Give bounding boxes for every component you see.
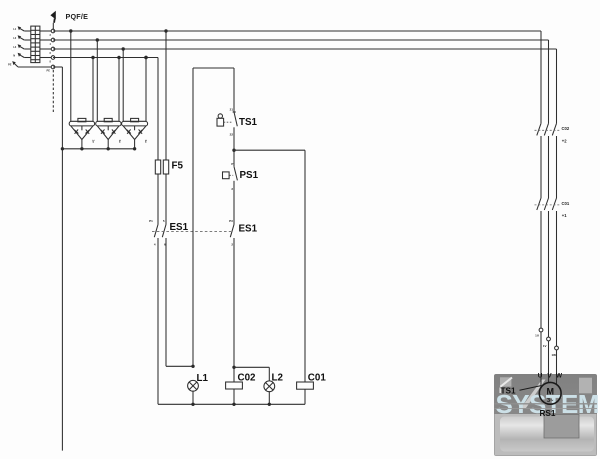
contactor C02 contact pole 1 xyxy=(537,123,541,198)
contactor C02 contact pole 2 xyxy=(544,123,548,198)
svg-text:C01: C01 xyxy=(308,372,327,383)
svg-text:L1: L1 xyxy=(197,373,209,384)
svg-text:RS1: RS1 xyxy=(540,409,556,418)
svg-text:1e: 1e xyxy=(118,140,122,144)
node A junction xyxy=(191,365,194,368)
wire heater3 right drop xyxy=(144,56,147,122)
lamp L1 xyxy=(188,380,199,391)
svg-text:21: 21 xyxy=(230,108,234,112)
SYSTEM watermark logo xyxy=(494,374,599,456)
contactor C02 contact pole 3 xyxy=(552,123,556,198)
wire heater1 right drop xyxy=(91,56,94,122)
svg-text:U: U xyxy=(538,373,543,380)
heater element R3 xyxy=(122,118,149,148)
node B junction xyxy=(232,149,235,152)
input filter/terminal block xyxy=(31,26,40,63)
svg-text:22: 22 xyxy=(230,133,234,137)
heater element R2 xyxy=(96,118,122,148)
wire ES1 b to node A xyxy=(166,238,193,366)
wire block to terminals xyxy=(40,31,51,58)
svg-text:P3: P3 xyxy=(229,219,233,223)
terminal 2 xyxy=(51,38,55,42)
switch ES1 pole b xyxy=(162,219,166,247)
contactor C01 contact pole 1 xyxy=(537,198,541,328)
motor plug terminal 1U xyxy=(535,328,543,387)
terminal 5 xyxy=(51,65,55,69)
node C junction xyxy=(232,366,235,369)
C02 contact linkage xyxy=(535,129,561,131)
svg-text:PQF/E: PQF/E xyxy=(66,12,89,21)
svg-text:L2: L2 xyxy=(272,372,284,383)
bottom neutral bus xyxy=(158,403,305,406)
wire heater2 right drop xyxy=(117,56,120,122)
contactor C01 contact pole 3 xyxy=(552,198,556,346)
wire PE rail xyxy=(53,67,62,451)
svg-text:N: N xyxy=(13,54,15,58)
motor plug terminal 1V xyxy=(543,337,551,382)
wire ES1 a to bottom bus xyxy=(157,238,159,404)
wire heater1 left drop xyxy=(69,29,72,121)
label TS1 motor sensor xyxy=(501,386,542,396)
svg-text:1U: 1U xyxy=(535,333,539,337)
svg-text:TS1: TS1 xyxy=(501,387,516,396)
wire lamp L2 to bus xyxy=(268,392,270,405)
bus line 3 (L3 phase) xyxy=(53,49,557,123)
wire TS1 to node B xyxy=(233,127,235,166)
switch ES1 pole a xyxy=(149,219,158,247)
svg-text:W: W xyxy=(556,373,563,380)
svg-text:C02: C02 xyxy=(238,372,257,383)
terminal 1 xyxy=(51,29,55,33)
wire coil C02 to bus xyxy=(233,389,235,404)
dash-dot stub below terminal block xyxy=(52,70,54,113)
bus line 4 (N) xyxy=(53,57,158,59)
svg-text:C01: C01 xyxy=(562,201,570,206)
switch ES1 pole c xyxy=(229,219,234,247)
svg-text:+2: +2 xyxy=(562,139,567,144)
wire node B to C01 branch xyxy=(234,150,305,382)
svg-text:M: M xyxy=(546,386,554,396)
svg-text:+1: +1 xyxy=(562,213,567,218)
svg-text:TS1: TS1 xyxy=(239,117,258,128)
motor M xyxy=(539,382,561,404)
wire lamp L1 to bus xyxy=(192,391,194,404)
terminal 3 xyxy=(51,47,55,51)
incoming feeder N xyxy=(13,53,31,58)
bus line 2 (L2 phase) xyxy=(53,40,549,123)
ES1 linkage dashed xyxy=(152,230,231,232)
svg-text:1e: 1e xyxy=(92,140,96,144)
C01 contact linkage xyxy=(535,204,561,206)
svg-text:P: P xyxy=(231,162,233,166)
fuse F5 pole a xyxy=(155,160,160,174)
svg-text:1e: 1e xyxy=(144,140,148,144)
fuse F5 pole b xyxy=(163,160,168,174)
wire N to fuse F5 left xyxy=(144,56,158,160)
bus line 1 (L1 phase) xyxy=(53,31,541,123)
wire TS1 column top xyxy=(233,68,235,112)
svg-text:1W: 1W xyxy=(552,353,557,357)
contactor coil C02 xyxy=(226,382,243,389)
svg-text:PE: PE xyxy=(8,62,12,66)
svg-text:C02: C02 xyxy=(562,126,570,131)
svg-text:PS1: PS1 xyxy=(240,170,259,181)
svg-text:PE: PE xyxy=(47,69,51,73)
contactor C01 contact pole 2 xyxy=(544,198,548,337)
label U V W xyxy=(538,373,563,380)
svg-text:3~: 3~ xyxy=(547,398,554,404)
svg-text:F5: F5 xyxy=(172,161,184,172)
svg-text:P1: P1 xyxy=(149,219,153,223)
svg-text:1V: 1V xyxy=(543,344,547,348)
heater bottom bus xyxy=(61,147,137,150)
wire node C to lamp L2 xyxy=(234,367,269,381)
incoming feeder L3 xyxy=(13,44,31,49)
wire heater2 left drop xyxy=(96,38,99,121)
pressure switch PS1 xyxy=(223,162,238,191)
wire heater3 left drop xyxy=(122,47,125,121)
wire fuses to switch ES1 xyxy=(158,174,166,225)
contactor coil C01 xyxy=(297,382,314,389)
terminal 4 xyxy=(51,56,55,60)
terminal pin numbers xyxy=(50,33,52,64)
wire L1 tap to fuse F5 right xyxy=(164,29,167,160)
svg-text:V: V xyxy=(547,373,552,380)
wire coil C01 to bus xyxy=(304,389,306,404)
motor plug terminal 1W xyxy=(552,346,559,385)
wire ES1 pole c to node C xyxy=(233,238,235,382)
supply arrow flag xyxy=(50,11,55,29)
lamp L2 xyxy=(264,381,275,392)
wire PS1 to ES1 pole c xyxy=(233,181,235,225)
incoming feeder L2 xyxy=(13,35,31,40)
thermostat TS1 xyxy=(217,108,237,137)
incoming feeder L1 xyxy=(13,26,31,31)
control loop top wire xyxy=(193,68,234,366)
svg-text:ES1: ES1 xyxy=(239,224,258,235)
incoming feeder PE xyxy=(8,61,51,72)
heater element R1 xyxy=(69,118,95,148)
